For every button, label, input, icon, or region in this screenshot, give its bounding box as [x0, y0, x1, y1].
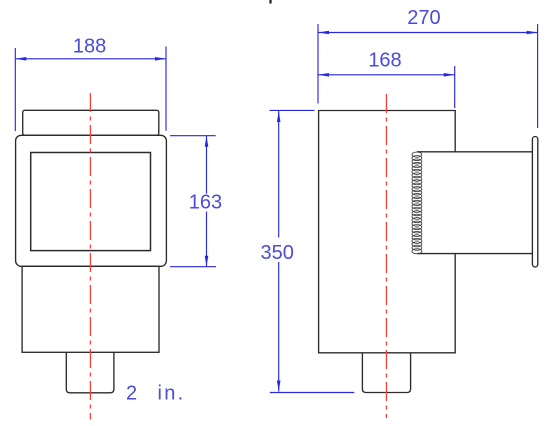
dim 270 dimension line	[318, 32, 538, 34]
top border tick	[269, 0, 271, 4]
dim 188 extension line left	[14, 48, 16, 131]
centerline left view	[89, 93, 91, 420]
left view bottom pipe stub	[66, 352, 114, 392]
arrow 188 left	[15, 57, 26, 61]
svg-text:2: 2	[126, 383, 137, 405]
svg-text:in.: in.	[158, 383, 186, 405]
arrow 163 bottom	[205, 256, 209, 267]
dim 163 dimension line	[206, 136, 208, 194]
left view main body	[16, 135, 167, 266]
arrow 270 left	[318, 31, 329, 35]
dim 270 extension line right	[537, 24, 539, 128]
right view flange	[532, 137, 537, 268]
arrow 168 right	[444, 73, 455, 77]
dim 168 extension line right	[454, 66, 456, 108]
right view body outline	[319, 111, 456, 353]
dim 270 extension line left	[317, 24, 319, 104]
arrow 350 bottom	[277, 381, 281, 392]
pipe thread coil	[412, 152, 422, 254]
arrow 270 right	[527, 31, 538, 35]
arrow 350 top	[277, 111, 281, 122]
arrow 163 top	[205, 136, 209, 147]
right view pipe bottom wall	[417, 253, 533, 255]
dim 188 extension line right	[165, 47, 167, 131]
dim 163 extension line bottom	[170, 266, 216, 268]
svg-text:163: 163	[189, 192, 222, 214]
arrow 188 right	[155, 57, 166, 61]
left view faceplate opening	[31, 153, 151, 251]
dim 350 extension line top	[270, 109, 315, 111]
dim 350 extension line bottom	[270, 392, 355, 394]
centerline right view	[385, 94, 387, 418]
dim 188 dimension line	[15, 58, 166, 60]
arrow 168 left	[318, 73, 329, 77]
svg-text:350: 350	[261, 242, 294, 264]
dim 163 extension line top	[170, 135, 216, 137]
right view pipe top wall	[417, 151, 533, 153]
dim 350 dimension line	[278, 111, 280, 238]
dim 168 dimension line	[318, 74, 455, 76]
svg-text:168: 168	[368, 49, 401, 71]
right view bottom pipe stub	[362, 353, 410, 393]
svg-text:270: 270	[407, 7, 440, 29]
svg-text:188: 188	[73, 35, 106, 57]
left view lid	[23, 110, 159, 135]
left view lower body	[22, 266, 159, 352]
